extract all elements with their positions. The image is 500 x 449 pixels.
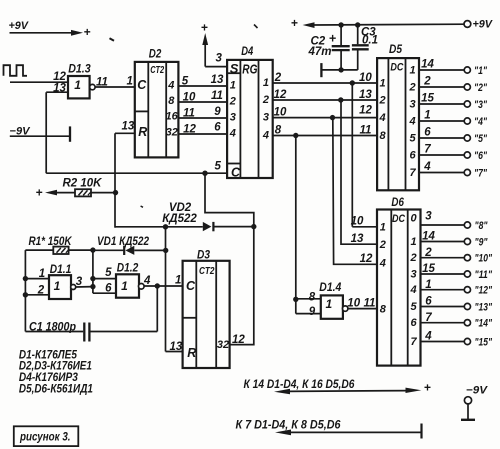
wire D2 output row 4 to D4 input — [178, 133, 227, 135]
label "12" — [475, 285, 493, 297]
svg-text:3: 3 — [425, 211, 432, 223]
pin 2 label D5 out2 — [423, 76, 431, 88]
pin 12 label D6 in3 — [360, 253, 373, 265]
capacitor C2 top lead — [340, 25, 342, 45]
cell in2 D6 — [379, 239, 386, 251]
junction reset bus to VD2 branch — [202, 171, 207, 176]
cell out7 D5 — [410, 167, 417, 179]
cell 8 D2 — [168, 95, 175, 107]
label K 7 D1-D4, K 8 D5,D6 — [236, 420, 342, 432]
label VD1 KD522 — [97, 236, 150, 248]
pin 1 label D6 out4 — [425, 279, 431, 291]
svg-text:14: 14 — [421, 59, 434, 71]
pin 13 label D4 in1 — [211, 74, 224, 86]
pin 13 label D3 R — [170, 341, 183, 353]
svg-text:3: 3 — [76, 276, 83, 288]
pin 3 label D1.1 — [76, 276, 83, 288]
label "5" — [474, 133, 488, 145]
svg-text:32: 32 — [217, 339, 229, 351]
wire VD1 anode to feedback vertical — [134, 249, 165, 251]
svg-text:1: 1 — [325, 297, 332, 311]
cell in1 D5 — [380, 78, 386, 90]
label D2 — [149, 46, 162, 60]
pin 15 label D6 out3 — [422, 263, 435, 275]
note D4 type — [19, 372, 79, 384]
cell out1 D4 — [263, 77, 269, 89]
label C input D4 — [231, 165, 241, 179]
wire supply arrow K14 both ends — [274, 381, 431, 395]
cell out5 D5 — [410, 133, 417, 145]
pin 11 label D5 in4 — [360, 125, 372, 137]
svg-text:1: 1 — [54, 279, 61, 293]
label "11" — [475, 269, 493, 281]
svg-text:+9V: +9V — [473, 19, 494, 31]
label D6 — [391, 195, 404, 209]
svg-text:1: 1 — [121, 279, 128, 293]
svg-text:8: 8 — [309, 291, 316, 303]
label R input D2 — [138, 125, 147, 139]
svg-text:9: 9 — [214, 106, 221, 118]
svg-text:10: 10 — [274, 107, 287, 119]
gate D1.1 — [49, 275, 71, 299]
svg-text:CT2: CT2 — [150, 65, 164, 76]
svg-text:+: + — [36, 185, 43, 199]
diode VD2 — [203, 222, 214, 231]
wire D6 output 9 — [421, 241, 465, 243]
net +9V label (right) — [473, 19, 494, 31]
cell out7 D6 — [410, 336, 417, 348]
label DC in D5 — [390, 61, 404, 73]
wire VD2 cathode to junction — [213, 226, 253, 228]
label C input D2 — [137, 78, 147, 92]
cell out0 D6 — [410, 213, 417, 225]
svg-text:11: 11 — [360, 125, 372, 137]
svg-text:D3: D3 — [197, 248, 210, 262]
inversion bubble D1.4 output — [343, 306, 348, 311]
scan speck near VD2 — [141, 206, 143, 207]
pin 1 label D3 C — [175, 275, 181, 287]
label D1.2 — [117, 261, 139, 275]
terminal output 3 — [464, 101, 470, 107]
label D1.4 — [319, 280, 341, 294]
pin 11 label D1.3 — [96, 76, 108, 88]
svg-text:7: 7 — [424, 144, 431, 156]
svg-text:4: 4 — [424, 331, 432, 343]
svg-text:8: 8 — [275, 125, 282, 137]
svg-text:4: 4 — [423, 161, 431, 173]
junction D1.1 out to D1.2 — [90, 284, 95, 289]
svg-text:2: 2 — [409, 252, 416, 264]
svg-text:"2": "2" — [474, 82, 488, 94]
svg-text:2: 2 — [229, 96, 236, 108]
inversion bubble D1.3 output — [90, 84, 95, 89]
wire C2 C3 common bottom — [321, 69, 357, 71]
pin 2 label D6 out2 — [424, 247, 432, 259]
pin 3 label D6 out0 — [425, 211, 432, 223]
cell out2 D5 — [409, 82, 416, 94]
wire row4 tap down to D1.4 inputs — [295, 136, 297, 314]
terminal +9V right — [464, 21, 471, 28]
svg-text:VD1 КД522: VD1 КД522 — [97, 236, 150, 248]
terminal output 11 — [464, 271, 470, 277]
svg-text:13: 13 — [359, 89, 372, 101]
svg-text:"10": "10" — [475, 253, 493, 265]
svg-text:D1.1: D1.1 — [50, 262, 72, 276]
cell out4 D4 — [262, 129, 269, 141]
pin 15 label D5 out3 — [421, 93, 434, 105]
label 47m — [308, 46, 332, 58]
svg-text:5: 5 — [182, 75, 189, 87]
wire D1.1 input2 stub — [25, 294, 49, 296]
svg-text:"7": "7" — [474, 168, 488, 180]
svg-text:4: 4 — [167, 80, 174, 92]
svg-text:1: 1 — [74, 78, 81, 92]
svg-text:4: 4 — [409, 284, 416, 296]
wire supply line K7 with bar end — [275, 424, 422, 439]
wire +9V arrow left end — [291, 16, 315, 30]
svg-text:2: 2 — [424, 247, 432, 259]
terminal output 14 — [464, 320, 470, 326]
svg-text:"6": "6" — [474, 150, 488, 162]
svg-text:DC: DC — [390, 61, 404, 73]
svg-text:CT2: CT2 — [199, 266, 215, 277]
svg-text:2: 2 — [274, 72, 282, 84]
pin 10 label D1.4 — [347, 298, 360, 310]
svg-text:1: 1 — [380, 221, 386, 233]
svg-text:D2: D2 — [149, 46, 162, 60]
scan speck near D4 top — [254, 25, 258, 29]
junction R1 right — [90, 247, 95, 252]
wire D6 output 8 — [421, 224, 465, 226]
svg-text:D6: D6 — [391, 195, 404, 209]
label "3" — [474, 99, 488, 111]
label "10" — [475, 253, 493, 265]
svg-text:D4-К176ИР3: D4-К176ИР3 — [19, 372, 79, 384]
svg-text:0.1: 0.1 — [362, 35, 378, 47]
cell out1 D5 — [410, 65, 416, 77]
terminal output 7 — [464, 169, 470, 175]
svg-text:1: 1 — [425, 279, 431, 291]
svg-text:2: 2 — [379, 239, 386, 251]
svg-text:4: 4 — [143, 275, 151, 287]
label 0.1 — [362, 35, 378, 47]
pin 3 label D4 S — [216, 53, 223, 65]
decoder D6 box — [377, 210, 421, 366]
wire row1 tap down to D6 in1 — [352, 83, 377, 227]
wire VD2 node down to D3 output 32 — [230, 227, 254, 345]
svg-text:D5,D6-К561ИД1: D5,D6-К561ИД1 — [19, 383, 93, 395]
svg-text:рисунок 3.: рисунок 3. — [19, 431, 70, 443]
note D1 type — [19, 349, 78, 361]
wire left node to R1 — [25, 249, 53, 251]
terminal -9V — [464, 397, 471, 404]
pin 4 label D1.2 — [143, 275, 151, 287]
pin 1 label D5 out4 — [424, 110, 430, 122]
svg-text:К 7 D1-D4, К 8 D5,D6: К 7 D1-D4, К 8 D5,D6 — [236, 420, 342, 432]
label KD522 for VD2 — [162, 213, 197, 225]
svg-text:R: R — [138, 125, 147, 139]
svg-text:"4": "4" — [474, 116, 488, 128]
pin 6 label D1.2 — [105, 283, 112, 295]
wire D4 output row 2 to D5 input — [273, 99, 377, 101]
svg-text:10: 10 — [183, 91, 196, 103]
pin 4 label D6 out7 — [424, 331, 432, 343]
pin 12 label D5 in3 — [359, 104, 372, 116]
diode VD1 — [124, 246, 134, 255]
svg-text:12: 12 — [359, 104, 372, 116]
pin 10 label D5 in1 — [359, 72, 372, 84]
wire D1.2 input6 stub — [93, 292, 116, 294]
svg-text:9: 9 — [309, 306, 316, 318]
wire -9V rail — [10, 135, 70, 137]
label D1.1 — [50, 262, 72, 276]
gate D1.4 — [321, 295, 343, 318]
terminal output 15 — [464, 338, 470, 344]
figure caption box — [14, 426, 79, 446]
svg-text:4: 4 — [379, 112, 386, 124]
svg-text:D1-К176ЛЕ5: D1-К176ЛЕ5 — [19, 349, 78, 361]
svg-text:2: 2 — [37, 284, 45, 296]
terminal output 9 — [464, 238, 470, 244]
wire feedback vertical to D3 R — [165, 227, 167, 352]
cell out5 D6 — [410, 301, 417, 313]
pin 6 label D6 out5 — [425, 296, 432, 308]
svg-text:5: 5 — [105, 267, 112, 279]
label C input D3 — [186, 279, 196, 293]
wire D5 output 2 — [419, 86, 464, 88]
cell in1 D6 — [380, 221, 386, 233]
wire D1.3 pin13 down to reset bus — [45, 92, 47, 173]
net +9V supply label (top left) — [9, 20, 30, 32]
svg-text:3: 3 — [216, 53, 223, 65]
capacitor C3 plates — [352, 45, 369, 49]
wire R2 arrow to + (left) — [36, 185, 76, 199]
pin 7 label D5 out6 — [424, 144, 431, 156]
note D2 D3 type — [19, 361, 92, 373]
wire D1.3 pin 13 stub — [46, 91, 68, 93]
label R2 10K — [63, 178, 103, 190]
wire D5 output 1 — [419, 69, 464, 71]
svg-text:15: 15 — [421, 93, 434, 105]
svg-text:13: 13 — [211, 74, 224, 86]
svg-text:5: 5 — [215, 160, 222, 172]
cell out6 D5 — [410, 150, 417, 162]
pin 12 label D2 out4 — [183, 123, 196, 135]
pin 8 label D4 out4 — [275, 125, 282, 137]
inversion bubble D1.1 output — [71, 285, 76, 290]
label "2" — [474, 82, 488, 94]
counter D3 box — [183, 261, 230, 368]
label CT2 in D3 — [199, 266, 215, 277]
pin 2 label D4 out1 — [274, 72, 282, 84]
svg-text:D1.3: D1.3 — [68, 62, 91, 76]
wire D4 output row 4 to D5 input — [273, 135, 377, 137]
label K 14 D1-D4, K 16 D5,D6 — [244, 379, 356, 391]
label D4 — [241, 44, 253, 58]
pin 13 label D2 R input — [122, 121, 135, 133]
pin 11 label D6 in4 wire — [364, 298, 376, 310]
svg-text:R2 10K: R2 10K — [63, 178, 103, 190]
svg-text:"5": "5" — [474, 133, 488, 145]
input clock waveform symbol — [4, 65, 28, 76]
svg-text:R: R — [187, 346, 196, 360]
label C3 — [361, 27, 376, 39]
scan speck top left — [110, 38, 115, 41]
svg-text:"12": "12" — [475, 285, 493, 297]
gate D1.3 — [68, 76, 90, 98]
pin 10 label D6 in1 — [351, 215, 364, 227]
svg-text:11: 11 — [211, 90, 223, 102]
cell in4 D6 — [379, 257, 386, 269]
cell out3 D4 — [263, 111, 269, 123]
terminal output 1 — [464, 67, 470, 73]
svg-text:"11": "11" — [475, 269, 493, 281]
svg-text:1: 1 — [424, 110, 430, 122]
label "13" — [475, 301, 493, 313]
cell out3 D6 — [410, 268, 416, 280]
pin 11 label D4 in2 — [211, 90, 223, 102]
svg-text:13: 13 — [122, 121, 135, 133]
svg-text:"8": "8" — [475, 220, 489, 232]
svg-text:12: 12 — [183, 123, 196, 135]
junction R2 / reset vertical — [113, 190, 118, 195]
pin 14 label D6 out1 — [422, 231, 435, 243]
cell in2 D5 — [379, 95, 386, 107]
label "8" — [475, 220, 489, 232]
wire clock input to D1.3 pin 12 — [10, 81, 68, 83]
cell out3 D5 — [410, 99, 416, 111]
terminal output 6 — [464, 152, 470, 158]
terminal bar capacitor common — [320, 63, 322, 77]
wire row2 tap down to D6 in2 — [341, 100, 377, 244]
junction VD1 feedback — [163, 248, 168, 253]
capacitor C3 top lead — [357, 25, 359, 44]
wire D1.3 output pin 11 to D2 C input — [95, 86, 135, 88]
svg-text:6: 6 — [425, 296, 432, 308]
wire D5 output 6 — [419, 154, 464, 156]
pin 12 label D4 out2 — [274, 89, 287, 101]
wire D5 output 3 — [419, 103, 464, 105]
svg-text:2: 2 — [423, 76, 431, 88]
svg-text:16: 16 — [165, 111, 178, 123]
svg-text:47m: 47m — [308, 46, 332, 58]
label VD2 — [169, 202, 192, 214]
label "4" — [474, 116, 488, 128]
svg-text:32: 32 — [166, 127, 178, 139]
net -9V label (bottom right) — [466, 384, 489, 396]
wire D2 output row 2 to D4 input — [178, 101, 227, 103]
junction C1 tap — [155, 283, 160, 288]
svg-text:4: 4 — [229, 128, 236, 140]
svg-text:12: 12 — [53, 71, 66, 83]
svg-text:5: 5 — [410, 133, 417, 145]
svg-text:"3": "3" — [474, 99, 488, 111]
pin 5 label D4 C input — [215, 160, 222, 172]
wire R1 node to VD1 — [93, 249, 124, 251]
svg-text:+: + — [424, 381, 431, 395]
svg-text:7: 7 — [425, 312, 432, 324]
svg-text:12: 12 — [232, 334, 245, 346]
pin 6 label D4 in4 — [214, 122, 221, 134]
svg-text:RG: RG — [242, 62, 257, 77]
net -9V label (left) — [10, 125, 32, 137]
svg-text:+: + — [329, 31, 337, 45]
terminal output 5 — [464, 135, 470, 141]
svg-text:5: 5 — [410, 301, 417, 313]
wire D2 R input stub — [115, 132, 135, 134]
svg-text:3: 3 — [410, 99, 416, 111]
svg-text:10: 10 — [347, 298, 360, 310]
svg-text:S: S — [230, 61, 239, 76]
cell 16 D2 — [165, 111, 178, 123]
wire reset node to VD2 — [115, 226, 203, 228]
svg-text:К 14 D1-D4, К 16 D5,D6: К 14 D1-D4, К 16 D5,D6 — [244, 379, 356, 391]
wire D1.1 input1 stub — [25, 278, 49, 280]
svg-text:1: 1 — [175, 275, 181, 287]
svg-text:1: 1 — [127, 75, 133, 87]
svg-text:"1": "1" — [474, 65, 488, 77]
label C2 — [311, 36, 326, 48]
svg-text:2: 2 — [262, 94, 269, 106]
wire D4 output row 1 to D5 input — [273, 82, 377, 84]
wire D6 output 15 — [421, 341, 465, 343]
pin 6 label D5 out5 — [424, 127, 431, 139]
junction row4 tap — [293, 133, 298, 138]
wire C1 left — [25, 331, 83, 333]
wire R1 right to D1.1 output node — [69, 249, 93, 251]
terminal output 12 — [464, 287, 470, 293]
svg-text:DC: DC — [392, 213, 406, 225]
terminal output 2 — [464, 84, 470, 90]
wire D6 output 11 — [421, 273, 465, 275]
cell out4 D6 — [409, 284, 416, 296]
pin 13 label D6 in2 — [351, 233, 364, 245]
polarity + of C2 — [329, 31, 337, 45]
pin 1 label D2 C input — [127, 75, 133, 87]
cell in3 D4 — [230, 112, 236, 124]
wire D4 output row 3 to D5 input — [273, 117, 377, 119]
svg-text:+: + — [201, 21, 208, 35]
terminal output 10 — [464, 255, 470, 261]
cell 32 D2 — [166, 127, 178, 139]
wire +9V arrow to the right with + end — [10, 25, 91, 39]
inversion bubble D1.2 output — [139, 284, 145, 290]
terminal output 8 — [464, 222, 470, 228]
svg-text:11: 11 — [96, 76, 108, 88]
wire row3 tap down to D6 in3 — [333, 118, 377, 265]
wire D1.4 input9 stub — [296, 313, 321, 315]
wire D1.2 output to D3 C — [144, 285, 183, 287]
svg-text:"9": "9" — [475, 236, 489, 248]
gate D1.2 — [116, 274, 139, 297]
svg-text:11: 11 — [183, 107, 195, 119]
svg-text:0: 0 — [410, 213, 417, 225]
svg-text:1: 1 — [39, 268, 45, 280]
cell in4 D5 — [379, 112, 386, 124]
pin 12 label D3 output — [232, 334, 245, 346]
pin 13 label D1.3 — [53, 83, 66, 95]
junction D1.1 input 1 — [23, 276, 28, 281]
svg-text:11: 11 — [364, 298, 376, 310]
svg-text:14: 14 — [422, 231, 435, 243]
svg-text:D2,D3-К176ИЕ1: D2,D3-К176ИЕ1 — [19, 361, 92, 373]
svg-text:6: 6 — [410, 317, 417, 329]
svg-text:1: 1 — [230, 80, 236, 92]
pin 9 label D4 in3 — [214, 106, 221, 118]
svg-text:1: 1 — [263, 77, 269, 89]
decoder D5 box — [377, 58, 419, 190]
label D1.3 — [68, 62, 91, 76]
